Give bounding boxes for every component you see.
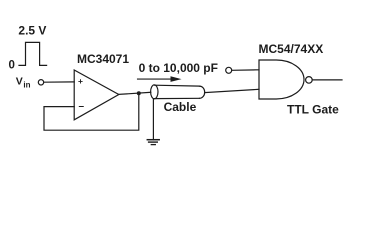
svg-text:V: V [16,75,23,87]
svg-text:0: 0 [9,59,15,71]
svg-text:MC34071: MC34071 [77,52,129,66]
svg-text:Cable: Cable [164,100,197,114]
svg-text:+: + [78,76,83,86]
svg-text:0 to 10,000 pF: 0 to 10,000 pF [139,61,218,75]
svg-text:in: in [23,81,30,90]
svg-text:TTL Gate: TTL Gate [287,103,339,117]
svg-text:2.5 V: 2.5 V [18,23,46,37]
svg-text:MC54/74XX: MC54/74XX [259,42,324,56]
svg-text:–: – [79,101,85,112]
